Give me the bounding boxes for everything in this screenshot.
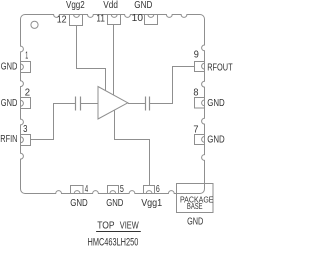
- svg-text:HMC463LH250: HMC463LH250: [88, 236, 139, 248]
- package outline with castellation scallops: [21, 15, 205, 194]
- svg-text:Vgg2: Vgg2: [66, 0, 85, 11]
- pin 12 pad: [70, 15, 83, 26]
- svg-text:Vgg1: Vgg1: [141, 198, 162, 209]
- pin 7 pad: [195, 135, 205, 145]
- svg-text:4: 4: [85, 184, 89, 195]
- pin 8 pad: [195, 98, 205, 109]
- svg-text:GND: GND: [1, 61, 18, 72]
- svg-text:GND: GND: [106, 198, 123, 209]
- svg-text:7: 7: [193, 124, 199, 135]
- title underline: [96, 231, 141, 233]
- svg-text:12: 12: [57, 15, 67, 26]
- wire RFIN pin3 to C1: [31, 104, 76, 140]
- svg-text:9: 9: [194, 50, 200, 61]
- pin 3 pad: [21, 135, 31, 146]
- wire Vdd pin11 to amplifier: [113, 25, 115, 96]
- capacitor C1 (input blocking cap): [76, 97, 81, 111]
- pin 1 pad: [21, 62, 31, 73]
- svg-text:10: 10: [132, 13, 144, 24]
- svg-text:RFOUT: RFOUT: [207, 62, 232, 73]
- pin 10 pad: [145, 15, 158, 25]
- svg-text:Vdd: Vdd: [103, 0, 118, 11]
- svg-text:GND: GND: [187, 215, 203, 227]
- svg-text:6: 6: [156, 184, 160, 195]
- svg-text:GND: GND: [70, 198, 88, 209]
- pin 1 indicator circle: [31, 21, 38, 28]
- svg-text:GND: GND: [207, 98, 225, 109]
- pin 5 pad: [108, 186, 119, 194]
- pin 11 pad: [108, 15, 121, 25]
- pin 2 pad: [21, 98, 31, 109]
- capacitor C2 (output blocking cap): [146, 97, 150, 111]
- svg-text:TOP: TOP: [97, 221, 115, 232]
- pin 4 pad: [71, 186, 84, 194]
- svg-text:GND: GND: [134, 0, 152, 11]
- pin 6 pad: [144, 186, 155, 194]
- svg-text:GND: GND: [1, 98, 18, 109]
- svg-text:5: 5: [120, 184, 124, 195]
- svg-text:RFIN: RFIN: [0, 134, 17, 145]
- wire amplifier to Vgg1 pin6: [115, 111, 150, 186]
- wire Vgg2 pin12 to amplifier: [77, 26, 106, 92]
- wire C2 to RFOUT pin9: [150, 67, 195, 104]
- svg-text:BASE: BASE: [187, 202, 203, 211]
- svg-text:GND: GND: [207, 135, 225, 146]
- svg-text:VIEW: VIEW: [120, 221, 139, 232]
- pin 9 pad: [195, 62, 205, 72]
- package base box: [177, 184, 214, 213]
- svg-text:1: 1: [25, 50, 28, 61]
- svg-text:11: 11: [96, 13, 105, 24]
- svg-text:3: 3: [23, 124, 28, 135]
- svg-text:8: 8: [193, 87, 199, 98]
- wire C1 to amplifier input: [81, 103, 99, 105]
- svg-text:2: 2: [25, 88, 31, 99]
- amplifier U1: [98, 87, 128, 120]
- wire amplifier output to C2: [128, 103, 146, 105]
